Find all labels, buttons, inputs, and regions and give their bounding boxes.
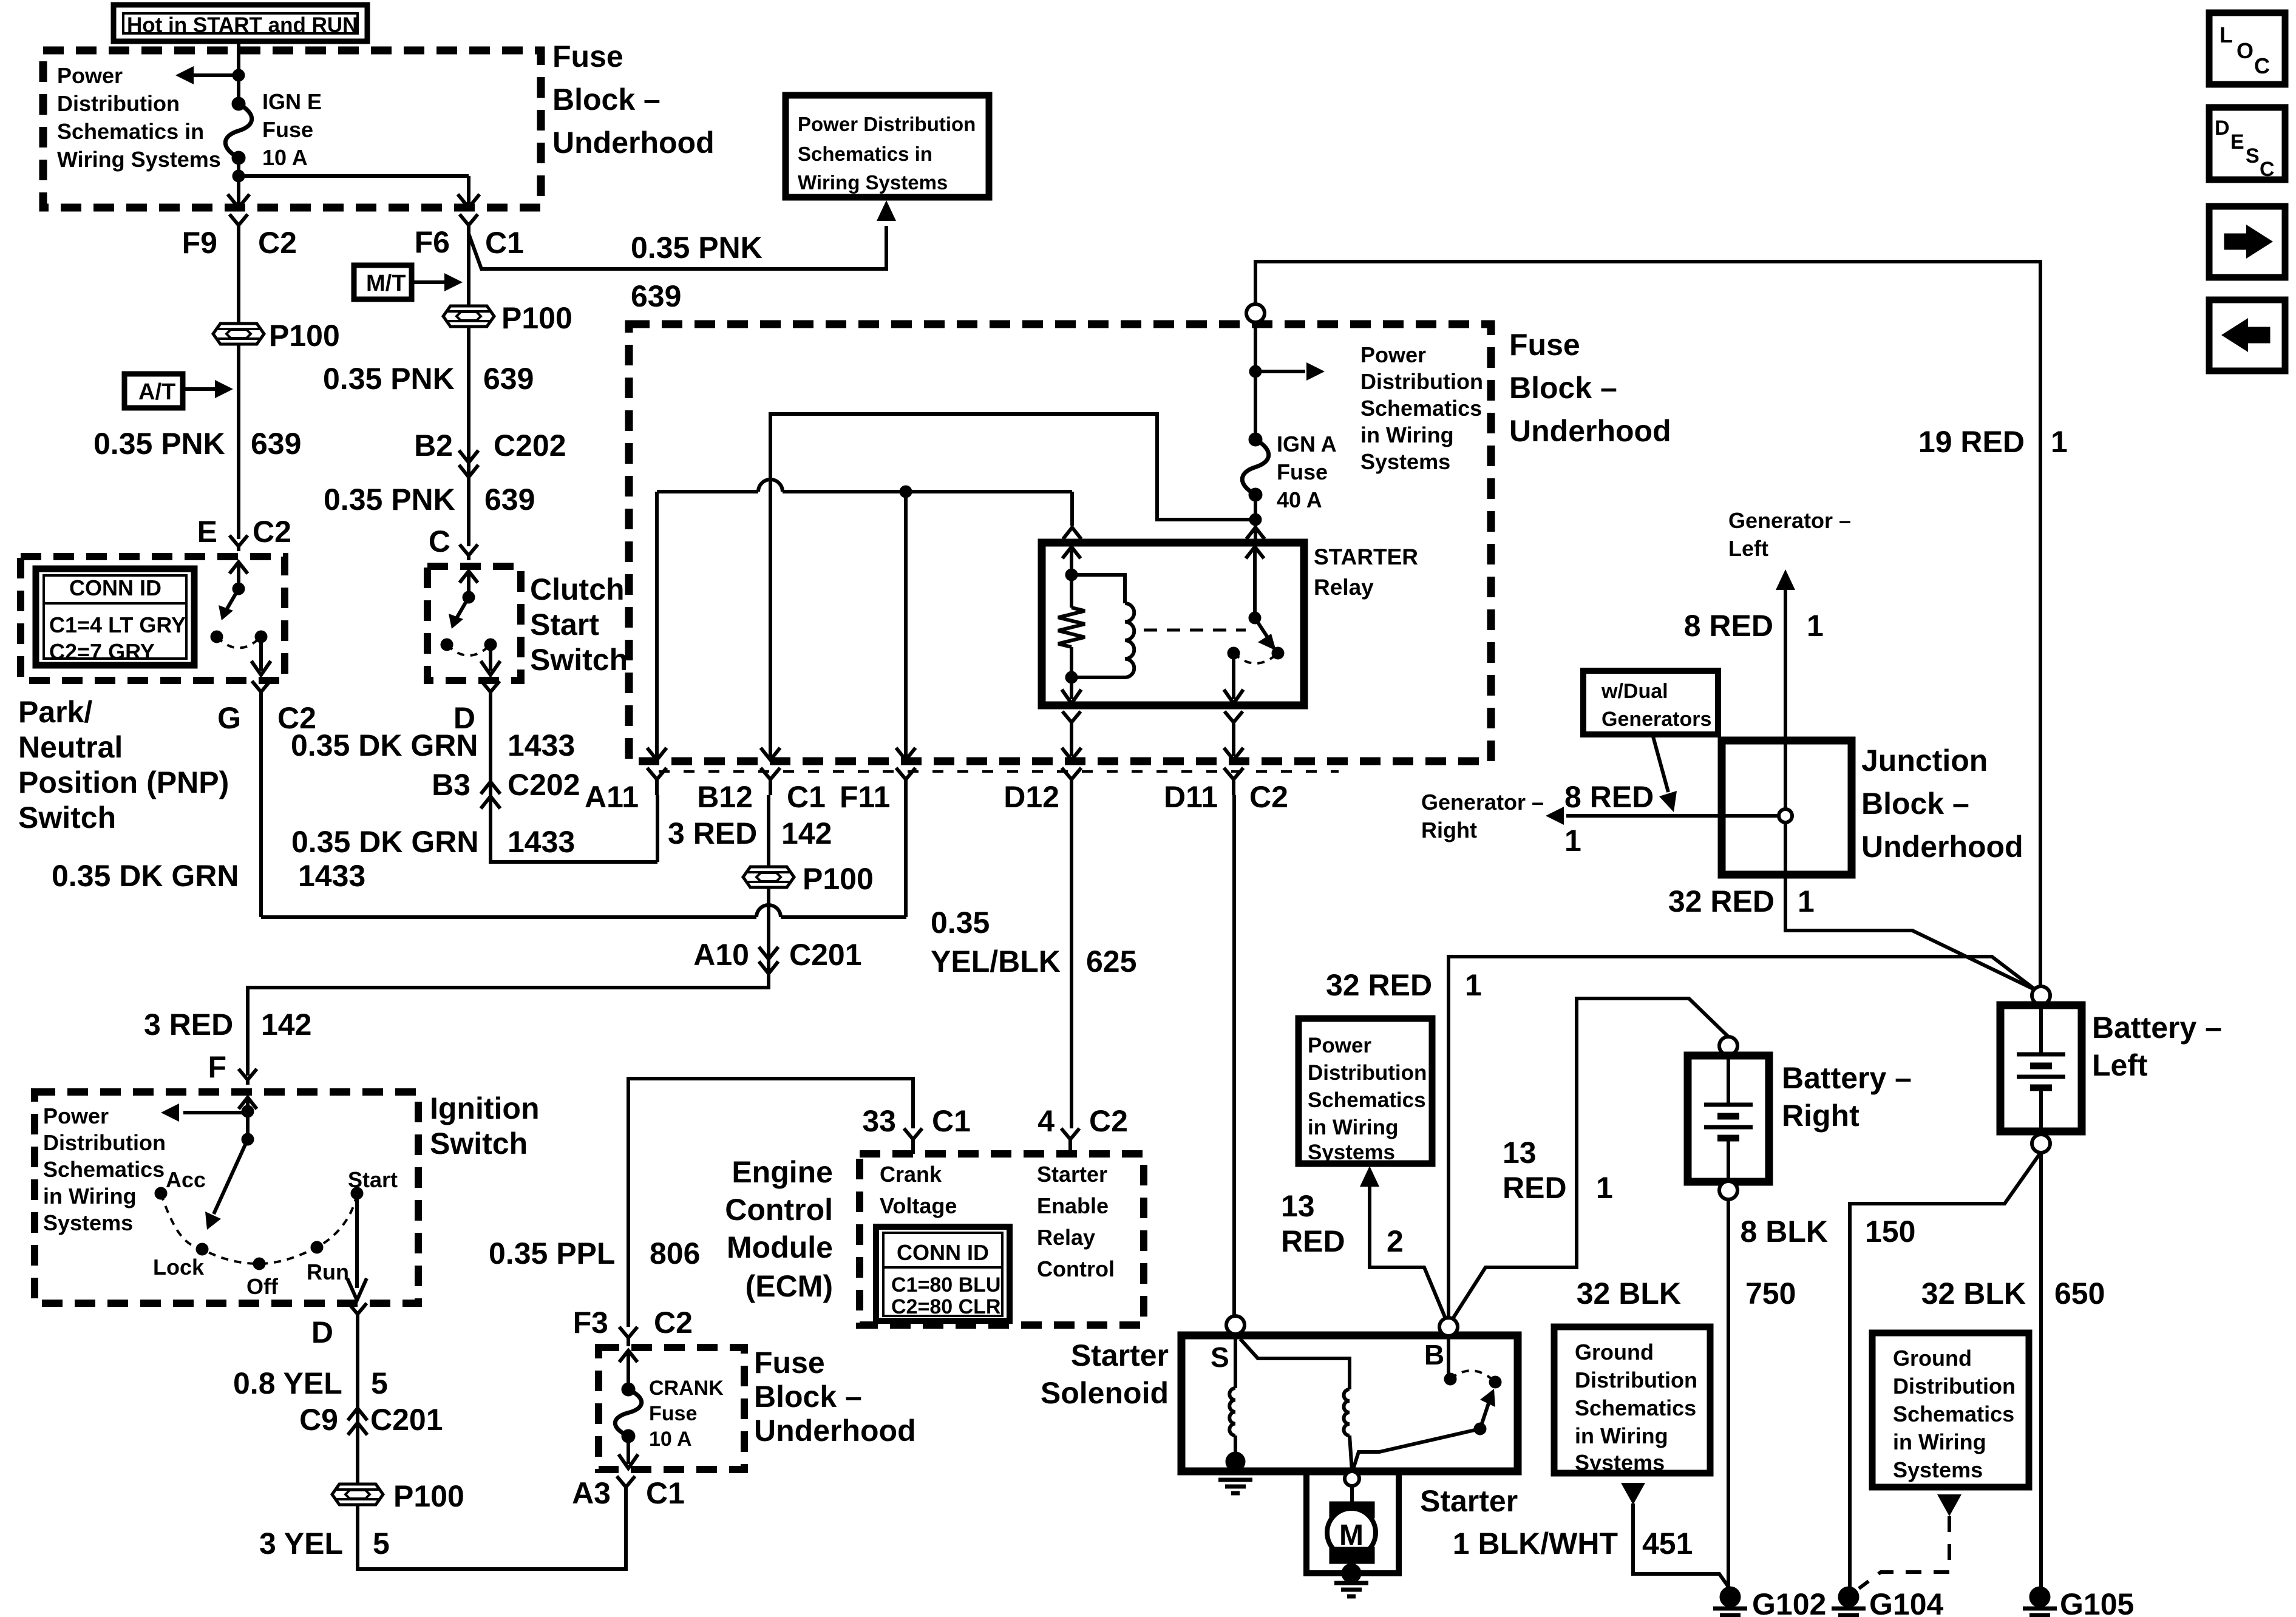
wire 8 BLK 150 from battery left to G104 xyxy=(1850,1152,2041,1593)
label: Junction Block - Underhood xyxy=(1861,744,2023,864)
relay coil feed drop xyxy=(1070,492,1074,526)
svg-text:RED: RED xyxy=(1503,1171,1567,1205)
svg-text:2: 2 xyxy=(1387,1224,1404,1258)
solenoid hold-in coil branch xyxy=(1240,1339,1350,1389)
solenoid pull-in coil xyxy=(1234,1335,1237,1388)
wire 13 RED 2 to power dist box xyxy=(1360,1166,1379,1187)
svg-text:Solenoid: Solenoid xyxy=(1041,1376,1169,1410)
motor brush top xyxy=(1330,1502,1374,1518)
wire D12 to ECM pin 4 xyxy=(1070,795,1073,1128)
label: 32 RED 1 (starter B) xyxy=(1326,968,1432,1002)
pin label D xyxy=(453,701,475,735)
svg-text:C: C xyxy=(2254,53,2270,78)
svg-text:F3: F3 xyxy=(573,1306,608,1340)
node: CONN ID table (PNP) xyxy=(36,569,194,665)
wire F6/C1 down xyxy=(467,234,470,306)
node S terminal xyxy=(1226,1316,1245,1334)
label: 13 RED 2 xyxy=(1281,1189,1345,1258)
svg-text:Power Distribution: Power Distribution xyxy=(798,113,976,135)
ignition rotor pivot xyxy=(242,1133,254,1145)
node: Engine Control Module dashed box xyxy=(860,1154,1144,1325)
label: CRANK Fuse 10 A xyxy=(649,1377,724,1451)
svg-text:Power: Power xyxy=(43,1103,109,1128)
relay switch pivot xyxy=(1249,612,1261,624)
svg-text:Battery –: Battery – xyxy=(2092,1011,2222,1045)
pin label C9 xyxy=(299,1403,338,1437)
svg-text:D11: D11 xyxy=(1164,780,1218,814)
label: 8 BLK 150 xyxy=(1741,1215,1828,1249)
wire G/C2 to F11 junction xyxy=(259,704,263,917)
svg-text:F6: F6 xyxy=(415,225,450,259)
connector Y F3/C2 xyxy=(619,1327,637,1346)
svg-text:Distribution: Distribution xyxy=(1893,1374,2016,1398)
svg-text:Switch: Switch xyxy=(18,801,116,835)
wire A11 down to clutch junction xyxy=(656,795,659,862)
clutch wiper arm xyxy=(455,597,469,620)
label: 0.8 YEL 5 xyxy=(233,1366,342,1400)
pin label A10 xyxy=(693,938,749,972)
pin label C xyxy=(429,524,450,558)
wire Generator Right xyxy=(1566,814,1779,818)
junction to power dist arrow xyxy=(1249,365,1262,378)
svg-text:A10: A10 xyxy=(693,938,749,972)
PNP output wire with arrow xyxy=(259,637,263,671)
node B terminal xyxy=(1439,1318,1458,1336)
arrow from A/T to wire xyxy=(183,387,216,391)
arrow from M/T to wire xyxy=(412,280,445,284)
fuse IGN A 40A xyxy=(1249,433,1262,446)
wire from IGN A junction to B12 feed xyxy=(770,414,1255,759)
PNP contact (left) xyxy=(211,631,223,643)
svg-text:in Wiring: in Wiring xyxy=(1575,1423,1668,1448)
svg-text:IGN A: IGN A xyxy=(1277,432,1337,456)
motor input node xyxy=(1345,1471,1359,1486)
svg-text:0.35 DK GRN: 0.35 DK GRN xyxy=(52,859,239,893)
wire 32 BLK 650 battery left to G105 xyxy=(2039,1152,2043,1593)
junction to F6 branch xyxy=(233,170,245,182)
svg-text:Start: Start xyxy=(348,1167,398,1192)
svg-text:C: C xyxy=(429,524,450,558)
label: 32 BLK 650 xyxy=(1921,1276,2026,1310)
svg-text:w/Dual: w/Dual xyxy=(1601,680,1668,703)
node: fuse block underhood (crank) dashed box xyxy=(599,1347,744,1470)
pin label B12 xyxy=(697,780,753,814)
pin label 4 xyxy=(1038,1104,1055,1138)
arrow below ground dist box (right) xyxy=(1937,1494,1961,1516)
svg-text:E: E xyxy=(197,515,217,549)
svg-text:3 RED: 3 RED xyxy=(668,816,757,850)
svg-text:0.35 PNK: 0.35 PNK xyxy=(631,231,763,265)
arrow from w/Dual Generators xyxy=(1652,734,1668,792)
svg-text:142: 142 xyxy=(261,1008,311,1042)
F11 internal drop xyxy=(904,492,908,759)
connector P100 (F6 wire) xyxy=(443,306,494,327)
svg-text:C2=7 GRY: C2=7 GRY xyxy=(49,639,155,664)
svg-text:Junction: Junction xyxy=(1861,744,1988,778)
svg-text:0.35 PNK: 0.35 PNK xyxy=(93,427,225,461)
pin label A11 xyxy=(585,780,639,814)
node: Ground Distribution box (left) xyxy=(1554,1327,1710,1473)
svg-text:G105: G105 xyxy=(2060,1587,2134,1617)
svg-text:S: S xyxy=(1211,1341,1229,1373)
pin label F (ignition) xyxy=(208,1050,226,1084)
svg-text:Control: Control xyxy=(725,1193,833,1227)
PNP throw arc xyxy=(217,637,261,648)
svg-text:in Wiring: in Wiring xyxy=(43,1184,137,1209)
pin label E xyxy=(197,515,217,549)
connector Y below clutch (D) xyxy=(481,681,500,704)
label: Starter Enable Relay Control xyxy=(1037,1162,1115,1281)
wire 0.35 PPL 806 from ECM to crank fuse xyxy=(628,1079,913,1327)
relay common feed drop xyxy=(1254,526,1257,528)
svg-text:13: 13 xyxy=(1281,1189,1315,1223)
svg-text:D: D xyxy=(2215,117,2230,140)
svg-text:Power: Power xyxy=(1360,342,1426,367)
label: Ignition Switch xyxy=(430,1091,540,1161)
svg-text:1: 1 xyxy=(1596,1171,1613,1205)
svg-text:Underhood: Underhood xyxy=(1861,830,2023,864)
svg-text:P100: P100 xyxy=(269,319,340,353)
connector C201 A10 (double chevron down) xyxy=(759,947,778,959)
svg-text:in Wiring: in Wiring xyxy=(1308,1116,1398,1139)
svg-text:Fuse: Fuse xyxy=(262,117,313,142)
svg-text:Schematics: Schematics xyxy=(1360,396,1482,421)
solenoid switch from B xyxy=(1447,1337,1450,1377)
motor ground xyxy=(1350,1562,1353,1571)
arrow to power distribution schematics (left) xyxy=(182,73,239,77)
svg-text:C2: C2 xyxy=(1249,780,1288,814)
svg-text:451: 451 xyxy=(1642,1527,1693,1561)
resistor in relay xyxy=(1070,575,1073,608)
arrow at box edge F9 xyxy=(228,194,250,208)
fuse IGN E 10A xyxy=(232,97,245,110)
svg-text:1: 1 xyxy=(1807,609,1824,643)
node: w/Dual Generators tag box xyxy=(1583,671,1718,734)
label: Battery - Right xyxy=(1782,1061,1912,1133)
wire branch to F6 xyxy=(239,174,469,178)
label: Battery - Left xyxy=(2092,1011,2222,1082)
label: Power Distribution Schematics in Wiring Systems (in left fuse block) xyxy=(57,63,221,172)
svg-text:S: S xyxy=(2246,144,2260,168)
svg-text:13: 13 xyxy=(1503,1136,1537,1170)
svg-text:C1: C1 xyxy=(932,1104,971,1138)
label: Fuse Block - Underhood (crank) xyxy=(754,1346,916,1448)
svg-text:in Wiring: in Wiring xyxy=(1893,1429,1986,1454)
wire 13 RED 1 from battery right to starter B xyxy=(1452,998,1728,1320)
svg-text:C1=4 LT GRY: C1=4 LT GRY xyxy=(49,612,186,637)
svg-text:Schematics: Schematics xyxy=(1308,1088,1426,1112)
svg-text:B: B xyxy=(1424,1339,1444,1371)
label P100 xyxy=(269,319,340,353)
label: IGN A Fuse 40 A xyxy=(1277,432,1337,512)
svg-text:Module: Module xyxy=(727,1230,833,1264)
relay coil input arrow xyxy=(1062,547,1081,558)
ground G102 xyxy=(1720,1587,1741,1607)
junction below IGN A xyxy=(1249,514,1262,526)
connector Y below PNP (G/C2) xyxy=(252,681,270,704)
pin label 33 xyxy=(862,1104,896,1138)
connector C202 B3 (double chevron up) xyxy=(481,796,500,808)
label: Starter xyxy=(1420,1484,1518,1518)
svg-text:Lock: Lock xyxy=(153,1255,205,1280)
svg-text:Systems: Systems xyxy=(1893,1457,1983,1482)
relay K: STARTER Relay box xyxy=(1042,543,1304,705)
arrow into power distribution box xyxy=(877,200,896,221)
motor M xyxy=(1327,1508,1376,1557)
solenoid throw arc xyxy=(1450,1371,1495,1382)
fuse block underhood (left) dashed box xyxy=(43,50,541,208)
junction coil bottom xyxy=(1065,671,1078,683)
svg-text:Underhood: Underhood xyxy=(754,1414,916,1448)
connector C201 C9 (double chevron up) xyxy=(348,1423,367,1435)
icon: left arrow box xyxy=(2209,300,2285,371)
junction ignition feed xyxy=(242,1105,254,1117)
svg-text:Distribution: Distribution xyxy=(57,91,180,116)
pin label D12 xyxy=(1004,780,1059,814)
ignition rotor arm to Lock xyxy=(214,1139,248,1214)
svg-text:(ECM): (ECM) xyxy=(746,1269,833,1303)
svg-text:639: 639 xyxy=(484,483,535,517)
svg-text:F9: F9 xyxy=(182,226,217,260)
ground G105 xyxy=(2029,1587,2050,1607)
ignition throw arc xyxy=(161,1193,357,1264)
relay actuation dashed link xyxy=(1144,629,1246,632)
svg-text:650: 650 xyxy=(2054,1276,2105,1310)
pin label C1 (B12) xyxy=(787,780,826,814)
pin label C2 (below PNP) xyxy=(277,701,316,735)
pin label C202 xyxy=(494,429,566,463)
node: Hot in START and RUN tag box xyxy=(114,5,367,41)
clutch switch symbol xyxy=(460,571,478,583)
connector row Y symbols xyxy=(647,768,667,795)
svg-text:B3: B3 xyxy=(432,768,470,802)
relay contact NO xyxy=(1272,647,1284,659)
PNP switch symbol xyxy=(229,562,248,574)
svg-text:1: 1 xyxy=(2051,425,2068,459)
svg-text:Schematics in: Schematics in xyxy=(57,119,204,144)
svg-text:Starter: Starter xyxy=(1071,1338,1169,1372)
svg-text:B2: B2 xyxy=(414,429,453,463)
svg-text:Ground: Ground xyxy=(1575,1340,1654,1364)
label: Starter Solenoid xyxy=(1041,1338,1169,1410)
svg-text:P100: P100 xyxy=(803,862,874,896)
label: 0.35 DK GRN 1433 (PNP output) xyxy=(52,859,239,893)
label P100 (F6) xyxy=(501,301,572,335)
motor brush bottom xyxy=(1330,1547,1374,1564)
node: A/T tag box xyxy=(124,374,183,408)
label: Fuse Block - Underhood (middle) xyxy=(1509,328,1671,448)
svg-text:A11: A11 xyxy=(585,780,639,814)
wire 32 RED to battery left xyxy=(1785,875,2037,991)
svg-text:C202: C202 xyxy=(508,768,580,802)
clutch contact (left) xyxy=(441,639,453,651)
svg-text:C2=80 CLR: C2=80 CLR xyxy=(891,1295,1000,1318)
svg-text:P100: P100 xyxy=(501,301,572,335)
node: Ignition Switch dashed box xyxy=(35,1092,418,1303)
wire coil bottom xyxy=(1072,676,1125,679)
svg-text:Control: Control xyxy=(1037,1256,1115,1281)
svg-text:D12: D12 xyxy=(1004,780,1059,814)
F11 junction dot xyxy=(900,486,912,498)
svg-text:Underhood: Underhood xyxy=(552,126,715,160)
svg-text:IGN E: IGN E xyxy=(262,89,322,114)
node: Park/Neutral Position switch dashed box xyxy=(21,557,285,680)
battery BT2: Battery - Right xyxy=(1719,1037,1737,1055)
svg-text:Generators: Generators xyxy=(1601,708,1711,731)
label: Park/Neutral Position (PNP) Switch xyxy=(18,695,229,835)
label: 0.35 PNK 639 (below C202) xyxy=(324,483,455,517)
label: Clutch Start Switch xyxy=(530,572,628,677)
label: Generator - Left xyxy=(1728,508,1851,561)
svg-text:C9: C9 xyxy=(299,1403,338,1437)
starter motor frame xyxy=(1306,1471,1399,1573)
node: Junction Block - Underhood box xyxy=(1722,741,1852,875)
solenoid switch arm xyxy=(1474,1423,1486,1435)
junction on IGN E feed xyxy=(233,69,245,81)
pin label D (ignition) xyxy=(311,1315,333,1349)
svg-text:Voltage: Voltage xyxy=(880,1193,957,1218)
icon: right arrow box xyxy=(2209,206,2285,277)
svg-text:in Wiring: in Wiring xyxy=(1360,422,1454,447)
wire D ignition down xyxy=(356,1327,359,1432)
pin label F6 xyxy=(415,225,450,259)
wire D down xyxy=(489,704,492,801)
svg-text:Fuse: Fuse xyxy=(1277,459,1328,484)
svg-text:Block –: Block – xyxy=(552,83,661,117)
svg-text:C2: C2 xyxy=(1089,1104,1128,1138)
svg-text:Underhood: Underhood xyxy=(1509,414,1671,448)
svg-text:Power: Power xyxy=(1308,1034,1371,1057)
label: 0.35 PNK 639 (F6 above B2) xyxy=(323,362,455,396)
svg-text:Block –: Block – xyxy=(754,1380,862,1414)
label: Fuse Block - Underhood (left) xyxy=(552,39,715,160)
label: 32 RED 1 (junction block) xyxy=(1668,884,1775,918)
wire fuse block exit x=1492 xyxy=(896,748,915,760)
svg-text:Engine: Engine xyxy=(732,1155,833,1189)
svg-text:Starter: Starter xyxy=(1037,1162,1107,1187)
svg-text:YEL/BLK: YEL/BLK xyxy=(931,944,1061,978)
svg-text:19 RED: 19 RED xyxy=(1918,425,2025,459)
svg-text:Distribution: Distribution xyxy=(1575,1368,1697,1392)
pin label C2 (PNP) xyxy=(253,515,291,549)
svg-text:C2: C2 xyxy=(253,515,291,549)
battery BT1: Battery - Left xyxy=(2032,986,2050,1005)
svg-text:Block –: Block – xyxy=(1509,371,1617,405)
svg-text:C2: C2 xyxy=(654,1306,693,1340)
svg-text:Left: Left xyxy=(2092,1048,2148,1082)
svg-text:Hot in START and RUN: Hot in START and RUN xyxy=(127,13,358,37)
fuse block underhood (middle) dashed box xyxy=(629,324,1491,761)
svg-text:C201: C201 xyxy=(370,1403,443,1437)
svg-text:150: 150 xyxy=(1865,1215,1915,1249)
connector Y A3/C1 xyxy=(617,1476,635,1494)
label: 0.35 DK GRN 1433 (clutch lower) xyxy=(291,825,478,859)
relay switch common xyxy=(1246,547,1264,558)
svg-text:32 BLK: 32 BLK xyxy=(1577,1276,1681,1310)
svg-text:G: G xyxy=(217,701,241,735)
svg-text:33: 33 xyxy=(862,1104,896,1138)
connector P100 (ignition) xyxy=(332,1484,383,1505)
svg-text:1 BLK/WHT: 1 BLK/WHT xyxy=(1453,1527,1618,1561)
solenoid switch output to motor xyxy=(1353,1429,1480,1469)
coil L in relay xyxy=(1125,603,1134,677)
svg-text:0.35 PPL: 0.35 PPL xyxy=(489,1236,615,1270)
connector Y into PNP switch xyxy=(229,535,248,551)
fuse CRANK 10A xyxy=(622,1383,635,1396)
svg-text:1: 1 xyxy=(1465,968,1482,1002)
label P100 (ignition) xyxy=(393,1479,464,1513)
svg-text:32 BLK: 32 BLK xyxy=(1921,1276,2026,1310)
connector Y into clutch switch xyxy=(460,544,478,560)
svg-text:639: 639 xyxy=(483,362,534,396)
wire below P100 (F9) xyxy=(237,344,240,539)
junction block node xyxy=(1779,809,1792,822)
label: 19 RED 1 xyxy=(1918,425,2025,459)
label: 1 BLK/WHT 451 xyxy=(1453,1527,1618,1561)
thin dashed inner edge line xyxy=(659,770,1339,773)
pin label F11 xyxy=(840,780,890,814)
svg-text:M: M xyxy=(1339,1519,1364,1551)
svg-text:625: 625 xyxy=(1086,944,1136,978)
pin label F9 xyxy=(182,226,217,260)
connector P100 (B12) xyxy=(743,867,794,887)
label: 0.35 PNK 639 (F9 wire) xyxy=(93,427,225,461)
pin label C1 (ECM) xyxy=(932,1104,971,1138)
svg-text:1433: 1433 xyxy=(508,825,575,859)
svg-text:D: D xyxy=(311,1315,333,1349)
svg-text:C1: C1 xyxy=(787,780,826,814)
wire 32 RED 1 from starter B to battery left xyxy=(1449,957,2035,1317)
wire F11 down to G junction xyxy=(904,795,908,917)
svg-text:F11: F11 xyxy=(840,780,890,814)
ignition contact Off xyxy=(253,1258,265,1270)
svg-text:Crank: Crank xyxy=(880,1162,942,1187)
svg-text:1433: 1433 xyxy=(508,728,575,762)
wire B12 down xyxy=(767,795,770,867)
svg-text:C201: C201 xyxy=(789,938,862,972)
A11 internal drop xyxy=(655,492,659,759)
svg-text:Distribution: Distribution xyxy=(43,1130,166,1155)
wire below P100 (B12) xyxy=(767,887,770,977)
label: Power Distribution Schematics in Wiring Systems (middle) xyxy=(1360,342,1483,474)
svg-text:10 A: 10 A xyxy=(262,145,308,170)
svg-text:40 A: 40 A xyxy=(1277,487,1322,512)
svg-text:Off: Off xyxy=(246,1274,279,1299)
connector Y F6/C1 xyxy=(460,214,478,234)
svg-text:8 BLK: 8 BLK xyxy=(1741,1215,1828,1249)
connector Y into ignition switch xyxy=(239,1069,257,1085)
svg-text:Acc: Acc xyxy=(166,1167,206,1192)
arrow below ground dist box xyxy=(1621,1483,1645,1505)
svg-text:CONN ID: CONN ID xyxy=(69,575,161,600)
pin label D11 xyxy=(1164,780,1218,814)
icon: LOC box xyxy=(2209,13,2285,84)
svg-text:C: C xyxy=(2260,158,2275,181)
label: 3 YEL 5 xyxy=(259,1527,343,1561)
icon: DESC box xyxy=(2209,107,2285,180)
pin label C1 xyxy=(485,226,524,260)
pin label B2 xyxy=(414,429,453,463)
svg-text:0.35 DK GRN: 0.35 DK GRN xyxy=(291,825,478,859)
pin label C2 (D11) xyxy=(1249,780,1288,814)
label: STARTER Relay xyxy=(1314,544,1418,600)
svg-text:Generator –: Generator – xyxy=(1728,508,1851,533)
svg-text:Generator –: Generator – xyxy=(1421,790,1544,815)
arrow to power distribution schematics (middle) xyxy=(1255,370,1305,373)
pin label A3 xyxy=(572,1476,611,1510)
label: 0.35 PPL 806 xyxy=(489,1236,615,1270)
svg-text:RED: RED xyxy=(1281,1224,1345,1258)
